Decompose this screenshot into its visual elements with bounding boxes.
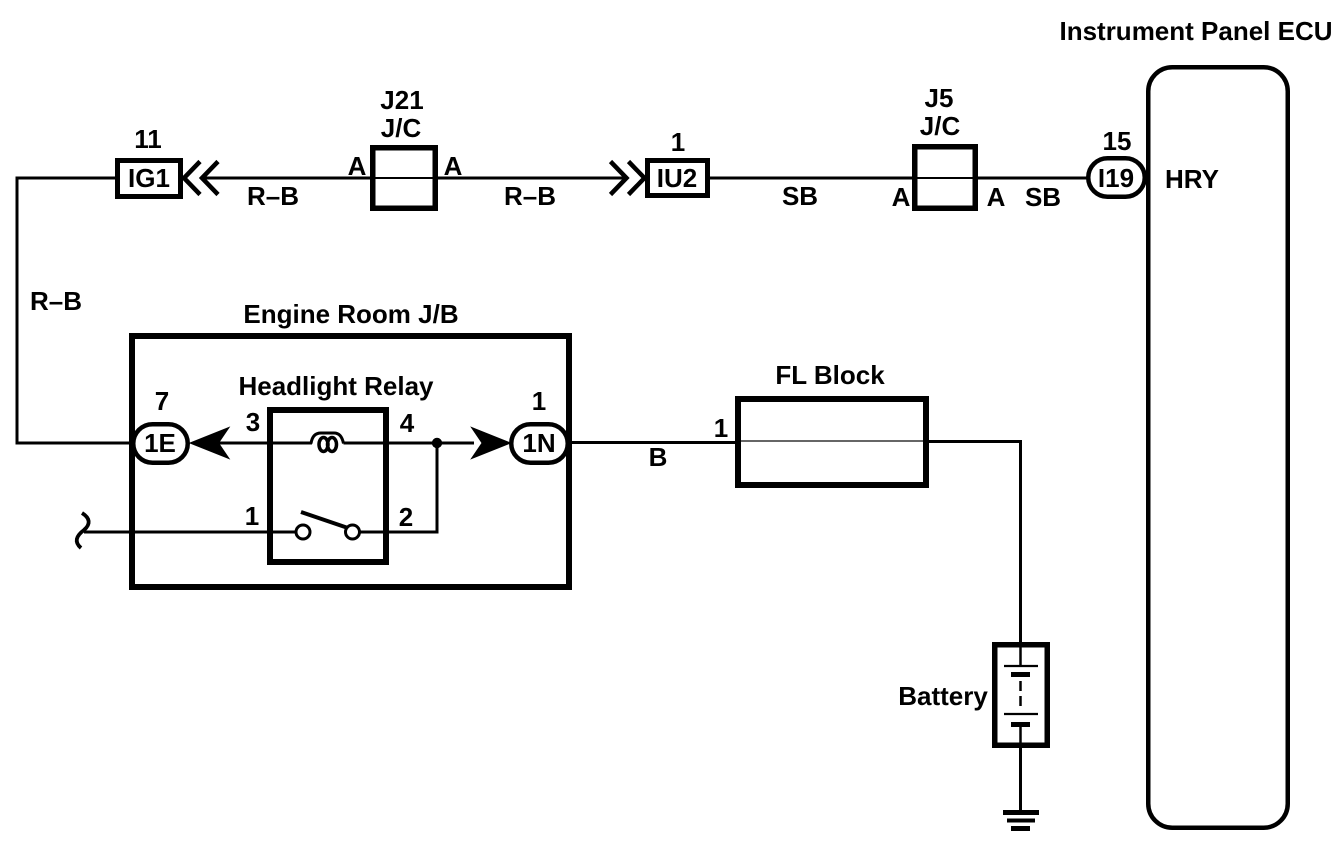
svg-text:SB: SB [1025,182,1061,212]
svg-text:IU2: IU2 [657,163,697,193]
svg-text:A: A [444,151,463,181]
FL Block box [738,399,926,485]
svg-text:1E: 1E [144,428,176,458]
wire through J5 [915,177,976,179]
junction J5 J/C [915,147,976,209]
svg-text:3: 3 [246,407,260,437]
svg-text:R–B: R–B [504,181,556,211]
svg-text:J/C: J/C [920,111,961,141]
svg-text:1: 1 [532,386,546,416]
wire break squiggle [77,513,89,548]
wire battery to ground [1019,746,1022,811]
wire J21 to IU2 [437,177,628,180]
svg-text:7: 7 [155,386,169,416]
svg-text:R–B: R–B [30,286,82,316]
svg-text:11: 11 [134,124,162,154]
svg-text:I19: I19 [1098,163,1134,193]
svg-text:R–B: R–B [247,181,299,211]
connector I19 pin 15 [1088,158,1145,197]
connector IU2 pin 1 [648,161,708,196]
svg-text:A: A [348,151,367,181]
wire IG1 to J21 [204,177,372,180]
ground symbol [1003,810,1039,815]
wire left vertical R-B run [17,178,133,443]
svg-text:J21: J21 [380,85,423,115]
svg-text:J/C: J/C [381,113,422,143]
wire through J21 [374,177,434,179]
battery cell plate short bottom [1011,722,1030,727]
wire IU2 to J5 [710,177,913,180]
battery wire into top cell [1019,647,1022,665]
Battery box [995,645,1048,746]
svg-text:SB: SB [782,181,818,211]
junction dot [432,438,442,448]
svg-text:Engine Room J/B: Engine Room J/B [243,299,458,329]
wire through FL Block [741,440,923,442]
arrow into 1E [192,429,227,457]
svg-text:Battery: Battery [898,681,988,711]
svg-text:1N: 1N [522,428,555,458]
wire FL Block to battery [926,442,1021,645]
switch contact left [296,525,310,539]
battery dashed center link [1019,681,1022,711]
svg-text:15: 15 [1103,126,1132,156]
switch contact right [346,525,360,539]
wire squiggle to switch [84,531,296,534]
battery cell plate short top [1011,672,1030,677]
svg-text:FL Block: FL Block [775,360,885,390]
connector 1E pin 7 [133,424,188,463]
connector IG1 pin 11 [118,161,181,197]
Instrument Panel ECU box [1148,67,1288,828]
wire arrow to relay coil [217,442,312,445]
male connector chevrons at IU2 [611,162,645,195]
wire junction down to pin2 line [436,443,439,532]
battery wire out bottom [1019,727,1022,748]
svg-text:1: 1 [245,501,259,531]
wire J5 to I19 [977,177,1089,180]
arrow into 1N [474,429,509,457]
male connector chevrons at IG1 [184,162,218,195]
battery cell plate long bottom [1004,713,1038,715]
svg-text:1: 1 [671,127,685,157]
wire coil to junction dot and arrow [344,442,475,445]
svg-text:1: 1 [714,413,728,443]
switch blade [301,512,348,528]
svg-text:2: 2 [399,502,413,532]
svg-text:A: A [987,182,1006,212]
svg-text:B: B [649,442,668,472]
svg-text:Instrument Panel ECU: Instrument Panel ECU [1059,16,1332,46]
junction J21 J/C [373,148,436,209]
wire switch to junction riser [360,531,439,534]
Headlight Relay box [270,410,386,562]
battery cell plate long top [1004,665,1038,667]
svg-text:A: A [892,182,911,212]
svg-text:Headlight Relay: Headlight Relay [238,371,434,401]
connector 1N pin 1 [511,424,568,463]
wire 1N to FL Block [570,441,739,444]
Engine Room J/B box [132,336,569,587]
svg-text:4: 4 [400,408,415,438]
svg-text:IG1: IG1 [128,163,170,193]
svg-text:J5: J5 [925,83,954,113]
svg-text:HRY: HRY [1165,164,1219,194]
relay coil [311,433,344,444]
